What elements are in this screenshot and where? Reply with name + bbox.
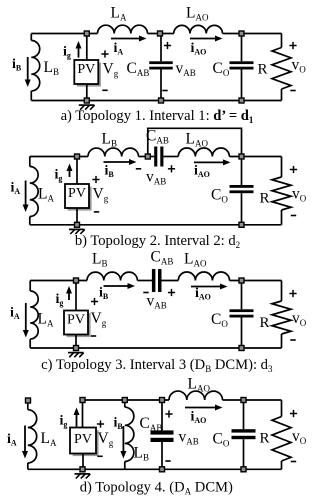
svg-text:R: R — [260, 191, 270, 207]
svg-text:CAB: CAB — [146, 128, 169, 146]
svg-text:iAO: iAO — [195, 286, 211, 302]
svg-text:LB: LB — [134, 445, 149, 463]
svg-text:iB: iB — [12, 57, 22, 73]
svg-text:LA: LA — [38, 186, 54, 204]
svg-text:CO: CO — [213, 60, 230, 78]
svg-text:Vg: Vg — [93, 186, 109, 204]
svg-text:PV: PV — [77, 62, 95, 77]
svg-text:CAB: CAB — [127, 60, 150, 78]
svg-text:vO: vO — [292, 186, 307, 204]
svg-text:a) Topology 1. Interval 1: d’: a) Topology 1. Interval 1: d’ = d1 — [61, 108, 254, 125]
svg-text:vAB: vAB — [147, 293, 167, 311]
svg-text:ig: ig — [56, 292, 64, 308]
svg-text:CO: CO — [211, 311, 228, 329]
svg-text:LA: LA — [41, 430, 57, 448]
svg-text:iAO: iAO — [194, 164, 210, 180]
svg-text:CO: CO — [213, 431, 230, 449]
svg-text:iB: iB — [99, 286, 109, 302]
svg-text:CAB: CAB — [140, 415, 163, 433]
svg-text:Vg: Vg — [91, 310, 107, 328]
svg-text:c) Topology 3. Interval 3 (DB: c) Topology 3. Interval 3 (DB DCM): d3 — [41, 357, 273, 374]
svg-text:d) Topology 4. (DA DCM): d) Topology 4. (DA DCM) — [80, 480, 233, 497]
svg-text:iA: iA — [7, 432, 17, 448]
svg-text:iAO: iAO — [191, 41, 207, 57]
svg-text:LA: LA — [111, 5, 127, 23]
svg-text:PV: PV — [67, 313, 85, 328]
svg-text:vO: vO — [292, 57, 307, 75]
svg-text:LAO: LAO — [184, 251, 207, 269]
svg-text:vO: vO — [292, 428, 307, 446]
svg-text:PV: PV — [68, 186, 86, 201]
svg-text:iB: iB — [105, 164, 115, 180]
svg-text:Vg: Vg — [103, 61, 119, 79]
svg-text:ig: ig — [55, 168, 63, 184]
svg-text:R: R — [260, 431, 270, 447]
svg-text:LB: LB — [102, 131, 117, 149]
svg-text:vAB: vAB — [146, 169, 166, 187]
svg-text:iB: iB — [114, 416, 124, 432]
svg-text:LB: LB — [44, 59, 59, 77]
svg-text:iA: iA — [10, 306, 20, 322]
svg-text:ig: ig — [60, 414, 68, 430]
svg-text:Vg: Vg — [98, 430, 114, 448]
svg-text:vAB: vAB — [179, 429, 199, 447]
svg-text:R: R — [260, 315, 270, 331]
svg-text:LAO: LAO — [188, 376, 211, 394]
svg-text:LAO: LAO — [186, 5, 209, 23]
svg-text:LAO: LAO — [186, 131, 209, 149]
svg-text:CO: CO — [211, 187, 228, 205]
svg-text:vO: vO — [292, 310, 307, 328]
svg-text:iA: iA — [114, 41, 124, 57]
svg-text:iAO: iAO — [191, 410, 207, 426]
svg-text:LA: LA — [38, 311, 54, 329]
svg-text:R: R — [258, 62, 268, 78]
svg-text:iA: iA — [11, 181, 21, 197]
svg-text:ig: ig — [63, 45, 71, 61]
svg-text:LB: LB — [92, 251, 107, 269]
svg-text:CAB: CAB — [151, 249, 174, 267]
svg-text:PV: PV — [74, 432, 92, 447]
svg-text:vAB: vAB — [176, 60, 196, 78]
